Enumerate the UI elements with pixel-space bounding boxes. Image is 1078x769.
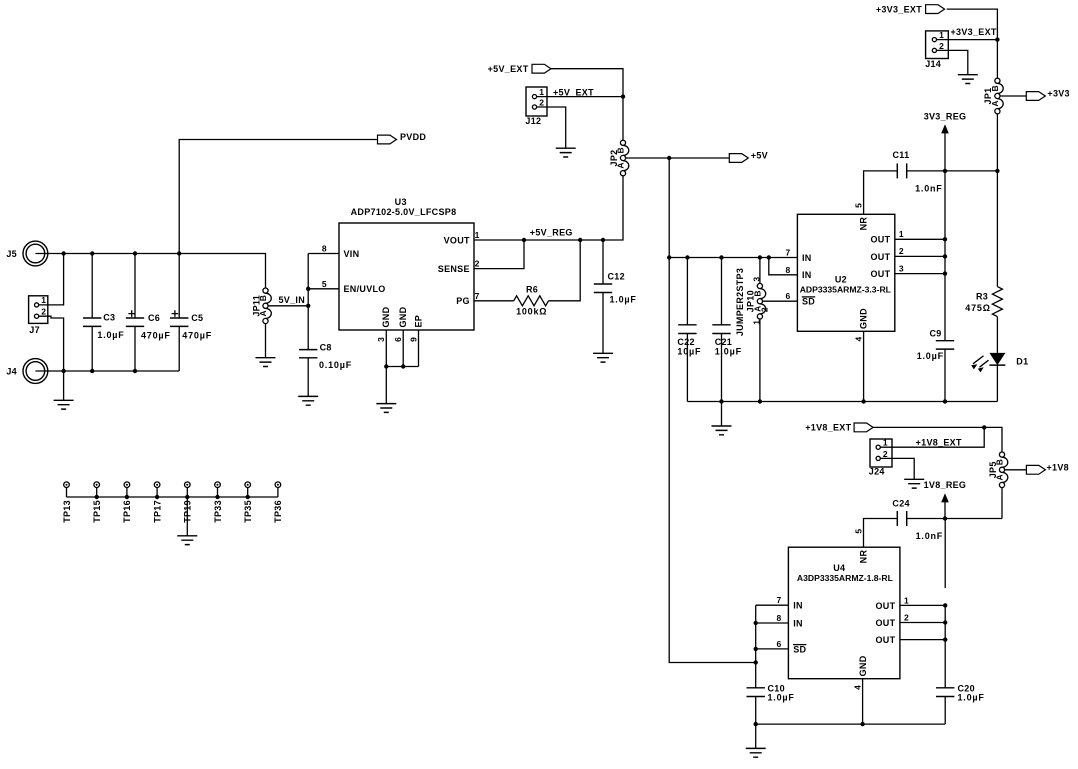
svg-text:1: 1: [539, 87, 544, 97]
svg-text:OUT: OUT: [870, 252, 890, 262]
svg-text:475Ω: 475Ω: [965, 303, 990, 313]
svg-text:C8: C8: [320, 343, 332, 353]
svg-text:1.0µF: 1.0µF: [97, 330, 124, 340]
svg-text:GND: GND: [859, 308, 869, 329]
svg-text:IN: IN: [802, 270, 812, 280]
svg-text:3: 3: [899, 263, 904, 273]
svg-text:2: 2: [760, 307, 770, 312]
svg-text:1V8_REG: 1V8_REG: [924, 480, 967, 490]
svg-text:IN: IN: [802, 253, 812, 263]
svg-text:8: 8: [777, 613, 782, 623]
svg-text:+5V_EXT: +5V_EXT: [488, 64, 529, 74]
svg-text:J14: J14: [925, 59, 941, 69]
svg-text:VIN: VIN: [344, 249, 360, 259]
svg-text:JP5: JP5: [988, 461, 998, 478]
svg-text:470µF: 470µF: [141, 330, 171, 340]
svg-text:1.0µF: 1.0µF: [958, 693, 985, 703]
svg-text:OUT: OUT: [875, 635, 895, 645]
svg-text:TP15: TP15: [92, 500, 102, 523]
svg-text:1: 1: [883, 438, 888, 448]
svg-text:OUT: OUT: [870, 269, 890, 279]
svg-text:TP33: TP33: [213, 500, 223, 523]
svg-text:R6: R6: [526, 284, 538, 294]
svg-text:C22: C22: [677, 337, 694, 347]
svg-text:2: 2: [539, 97, 544, 107]
svg-text:5: 5: [853, 203, 863, 208]
svg-text:C21: C21: [715, 337, 732, 347]
svg-text:C6: C6: [148, 313, 160, 323]
svg-text:7: 7: [777, 595, 782, 605]
svg-text:D1: D1: [1016, 357, 1028, 367]
svg-text:EP: EP: [413, 315, 423, 328]
svg-text:+3V3_EXT: +3V3_EXT: [951, 27, 997, 37]
svg-text:R3: R3: [976, 292, 988, 302]
svg-text:3: 3: [751, 277, 761, 282]
svg-text:3: 3: [376, 337, 386, 342]
svg-text:6: 6: [777, 639, 782, 649]
svg-text:TP36: TP36: [273, 500, 283, 523]
svg-text:J24: J24: [869, 467, 885, 477]
svg-text:SD: SD: [802, 297, 815, 307]
svg-text:C12: C12: [608, 272, 625, 282]
svg-text:3V3_REG: 3V3_REG: [924, 111, 967, 121]
svg-text:+1V8_EXT: +1V8_EXT: [916, 438, 962, 448]
svg-text:2: 2: [939, 41, 944, 51]
svg-text:NR: NR: [859, 217, 869, 231]
svg-text:U4: U4: [833, 563, 845, 573]
svg-text:SD: SD: [793, 644, 806, 654]
svg-text:ADP7102-5.0V_LFCSP8: ADP7102-5.0V_LFCSP8: [351, 207, 457, 217]
svg-text:+3V3: +3V3: [1047, 89, 1069, 99]
svg-text:GND: GND: [858, 655, 868, 676]
svg-text:4: 4: [853, 336, 863, 341]
svg-text:6: 6: [786, 291, 791, 301]
svg-text:IN: IN: [793, 618, 803, 628]
svg-text:1: 1: [939, 30, 944, 40]
svg-text:+5V_REG: +5V_REG: [530, 228, 573, 238]
svg-text:JP1: JP1: [983, 88, 993, 105]
svg-text:EN/UVLO: EN/UVLO: [344, 284, 386, 294]
svg-text:9: 9: [408, 337, 418, 342]
svg-text:8: 8: [322, 244, 327, 254]
svg-text:4: 4: [852, 685, 862, 690]
svg-text:OUT: OUT: [875, 601, 895, 611]
svg-text:2: 2: [475, 259, 480, 269]
svg-text:JP2: JP2: [609, 150, 619, 167]
svg-text:JP10: JP10: [746, 290, 756, 312]
svg-text:+1V8_EXT: +1V8_EXT: [805, 423, 851, 433]
svg-text:100kΩ: 100kΩ: [516, 307, 547, 317]
svg-text:2: 2: [41, 307, 46, 317]
svg-text:1: 1: [751, 320, 761, 325]
svg-text:GND: GND: [381, 306, 391, 327]
svg-text:1.0nF: 1.0nF: [915, 183, 943, 193]
svg-text:6: 6: [393, 337, 403, 342]
svg-text:U2: U2: [835, 274, 847, 284]
svg-text:J5: J5: [6, 249, 17, 259]
svg-text:J7: J7: [29, 325, 40, 335]
svg-text:PVDD: PVDD: [400, 132, 426, 142]
svg-text:5V_IN: 5V_IN: [279, 295, 306, 305]
svg-text:IN: IN: [793, 601, 803, 611]
svg-text:JUMPER2STP3: JUMPER2STP3: [735, 268, 745, 336]
svg-text:1.0nF: 1.0nF: [916, 531, 944, 541]
svg-text:1: 1: [904, 595, 909, 605]
svg-text:TP17: TP17: [152, 500, 162, 523]
svg-text:SENSE: SENSE: [438, 264, 470, 274]
svg-text:2: 2: [899, 246, 904, 256]
svg-text:1.0µF: 1.0µF: [715, 347, 742, 357]
svg-text:U3: U3: [395, 197, 407, 207]
svg-text:2: 2: [904, 613, 909, 623]
svg-text:PG: PG: [456, 296, 470, 306]
svg-text:C24: C24: [892, 499, 909, 509]
svg-text:OUT: OUT: [870, 235, 890, 245]
svg-text:7: 7: [475, 291, 480, 301]
svg-text:J4: J4: [6, 366, 17, 376]
svg-text:+5V: +5V: [751, 151, 768, 161]
svg-text:1: 1: [475, 230, 480, 240]
svg-text:TP16: TP16: [122, 500, 132, 523]
svg-text:+1V8: +1V8: [1047, 462, 1069, 472]
svg-text:1.0µF: 1.0µF: [917, 351, 944, 361]
svg-text:VOUT: VOUT: [444, 235, 470, 245]
svg-text:ADP3335ARMZ-3.3-RL: ADP3335ARMZ-3.3-RL: [800, 284, 891, 294]
svg-text:470µF: 470µF: [182, 330, 212, 340]
svg-text:JP11: JP11: [251, 295, 261, 317]
svg-text:1: 1: [899, 229, 904, 239]
svg-text:C3: C3: [103, 313, 115, 323]
svg-text:C9: C9: [930, 329, 942, 339]
svg-text:J12: J12: [525, 116, 541, 126]
svg-text:TP19: TP19: [183, 500, 193, 523]
svg-text:7: 7: [786, 248, 791, 258]
svg-text:NR: NR: [858, 550, 868, 564]
svg-text:1: 1: [41, 295, 46, 305]
svg-text:10µF: 10µF: [677, 347, 701, 357]
svg-text:8: 8: [786, 265, 791, 275]
svg-text:2: 2: [883, 449, 888, 459]
svg-text:5: 5: [853, 529, 863, 534]
svg-text:C5: C5: [191, 313, 203, 323]
svg-text:1.0µF: 1.0µF: [610, 295, 637, 305]
svg-text:A3DP3335ARMZ-1.8-RL: A3DP3335ARMZ-1.8-RL: [797, 573, 893, 583]
svg-text:GND: GND: [398, 306, 408, 327]
svg-text:+3V3_EXT: +3V3_EXT: [876, 4, 922, 14]
svg-text:C11: C11: [893, 150, 910, 160]
svg-text:1.0µF: 1.0µF: [768, 693, 795, 703]
svg-text:5: 5: [322, 279, 327, 289]
svg-text:OUT: OUT: [875, 618, 895, 628]
svg-text:TP13: TP13: [62, 500, 72, 523]
svg-text:0.10µF: 0.10µF: [319, 360, 352, 370]
svg-text:TP35: TP35: [243, 500, 253, 523]
